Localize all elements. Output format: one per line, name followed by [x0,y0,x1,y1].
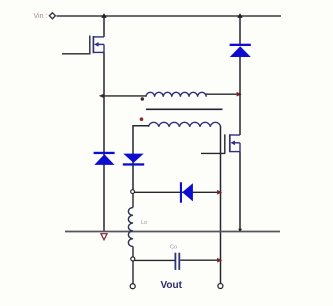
diode D2 cathode bar (up diode on left rail) [94,152,115,154]
transistor Q2 body arrow [230,141,235,146]
svg-text:Lo: Lo [141,220,147,226]
junction arrow into output rail (freewheel row) [217,190,222,195]
transistor Q2 channel bar [229,134,231,152]
diode D2 body [94,154,114,165]
wire: primary left lead [104,95,147,97]
wire: secondary left lead down to freewheel node [133,126,149,190]
wire: top bus down to Q1 drain [103,16,105,37]
inductor Lo winding [128,208,133,247]
diode D1 cathode bar [230,44,251,46]
output terminal left [130,284,135,289]
wire: Q2 gate stub [201,152,225,154]
diode D4 cathode bar [180,182,182,202]
junction ring at Co tap [131,257,135,261]
svg-text:Co: Co [170,245,177,251]
secondary polarity dot [140,117,144,121]
capacitor Co right plate [178,253,180,270]
transistor Q1 drain lead [93,36,104,38]
wire: top input bus [57,15,282,17]
primary polarity dot [141,97,144,100]
wire: right rail top (bus to D1 cathode) [239,16,241,45]
junction arrow at D1 branch [237,13,242,18]
transformer core [146,108,223,110]
wire: D1 anode down to Q2 drain [239,57,241,135]
wire: left rail (Q1 source down to bottom bus) [103,52,105,231]
wire: bottom bus [65,231,280,233]
svg-text:Vin :: Vin : [34,13,48,20]
transistor Q1 gate bar [89,36,91,55]
return port hollow arrow [101,234,107,240]
wire: Q2 source down to bottom bus [239,152,241,232]
junction arrow at bottom bus [238,229,242,233]
transistor Q1 gate lead [62,53,90,55]
wire: Co tap down to Vout- terminal [132,261,134,284]
transistor Q1 body-source tie [103,44,105,52]
junction ring at freewheel node [131,190,135,194]
svg-text:Vout: Vout [161,280,183,291]
transistor Q1 channel bar [92,36,94,53]
transformer T1 secondary winding [149,122,221,126]
input terminal diamond [49,13,55,19]
wire: Lo bottom to Co tap [132,247,134,258]
wire: freewheel diode row [134,191,221,193]
junction arrow into right rail (primary) [237,92,242,97]
diode D1 body [230,46,251,57]
transformer T1 primary winding [146,92,206,97]
junction arrow at primary left lead [99,94,105,99]
output terminal right [218,284,223,289]
wire: Co right lead [180,259,220,261]
transistor Q2 body-source tie [239,143,241,152]
capacitor Co left plate [175,253,177,270]
transistor Q2 drain lead [230,134,240,136]
transistor Q1 body arrow [94,42,99,47]
transistor Q1 body lead [98,43,104,45]
transistor Q2 body lead [235,142,240,144]
wire: Co left lead [134,259,175,261]
wire: freewheel node down to Lo [132,194,134,208]
diode D3 cathode bar [123,163,144,165]
diode D3 body (down diode) [123,154,143,163]
transistor Q1 source lead [93,51,104,53]
junction arrow into output rail (Co) [217,258,222,263]
junction arrow at Q1 drain branch [101,13,106,18]
wire: primary right lead [206,93,240,95]
transistor Q2 gate bar [224,134,226,154]
transistor Q2 source lead [230,151,240,153]
diode D4 body [182,183,193,201]
wire: secondary right lead down the output rail [220,126,222,284]
